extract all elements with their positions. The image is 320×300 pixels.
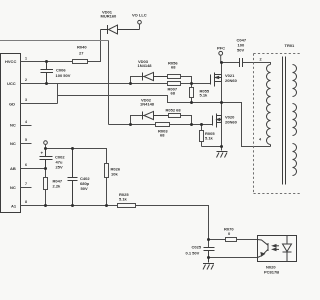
wire C047 to primary xyxy=(243,63,271,65)
wire pin6 row xyxy=(21,168,46,170)
IC pin stubs xyxy=(21,126,32,188)
svg-text:5: 5 xyxy=(25,138,27,142)
resistor R056 xyxy=(168,75,181,79)
wire VD02 row xyxy=(131,116,144,125)
wire V020 source to ground xyxy=(221,123,223,151)
svg-text:5.1k: 5.1k xyxy=(119,197,128,202)
mosfet V021 xyxy=(211,73,222,87)
svg-text:5.1k: 5.1k xyxy=(200,93,209,98)
resistor R055 xyxy=(190,84,194,103)
wire opto emitter row xyxy=(209,257,258,259)
svg-text:NC: NC xyxy=(10,141,16,146)
svg-text:PC817B: PC817B xyxy=(264,270,279,275)
wire V021 drain xyxy=(221,63,223,75)
svg-text:NC: NC xyxy=(10,123,16,128)
resistor R003 xyxy=(156,123,170,127)
wire R040 to VD01 xyxy=(88,30,101,62)
wire mid branch to HB node xyxy=(58,96,271,147)
wire down from off-page xyxy=(108,41,110,125)
svg-text:68: 68 xyxy=(160,133,165,138)
wire pin2 row xyxy=(21,83,211,85)
terminal above C002 xyxy=(44,141,48,145)
svg-text:1N4148: 1N4148 xyxy=(138,63,153,68)
svg-text:C006: C006 xyxy=(56,68,66,73)
svg-text:R040: R040 xyxy=(77,45,87,50)
wire R052 to corner xyxy=(181,116,192,125)
svg-text:1N4148: 1N4148 xyxy=(140,102,155,107)
svg-text:50V: 50V xyxy=(81,186,88,191)
wire top row bottom-left xyxy=(46,149,107,164)
svg-text:C025: C025 xyxy=(192,245,202,250)
diode VD01 xyxy=(101,25,140,34)
ground at C025 xyxy=(203,264,214,270)
terminal PFC xyxy=(219,51,223,55)
svg-text:HVCC: HVCC xyxy=(5,59,16,64)
svg-text:7: 7 xyxy=(25,182,27,186)
svg-text:A1: A1 xyxy=(11,203,17,208)
svg-text:0.1 50V: 0.1 50V xyxy=(186,251,200,256)
wire R070 to opto xyxy=(237,239,258,241)
wire R025 to C025 xyxy=(136,206,209,248)
svg-text:50V: 50V xyxy=(237,48,244,53)
wire R005 bottom xyxy=(202,146,222,148)
resistor R026 xyxy=(105,164,109,206)
capacitor C025 xyxy=(204,248,215,263)
svg-text:NC: NC xyxy=(10,185,16,190)
svg-text:68: 68 xyxy=(171,91,176,96)
capacitor C047 xyxy=(240,58,243,67)
svg-text:68: 68 xyxy=(171,65,176,70)
IC pin numbers xyxy=(25,57,27,205)
svg-text:+: + xyxy=(41,151,44,156)
IC pin labels xyxy=(5,59,17,208)
svg-text:25V: 25V xyxy=(56,165,63,170)
wire off-page left xyxy=(0,40,109,42)
svg-text:PFC: PFC xyxy=(217,46,225,51)
svg-text:R052 68: R052 68 xyxy=(166,108,182,113)
opto light arrows xyxy=(273,245,279,251)
svg-text:2: 2 xyxy=(25,78,27,82)
svg-text:GD: GD xyxy=(9,102,15,107)
transformer core xyxy=(282,57,284,185)
svg-text:4: 4 xyxy=(25,120,27,124)
wire VD03 row xyxy=(131,77,144,84)
terminal VO LLC xyxy=(139,24,141,30)
svg-text:TR01: TR01 xyxy=(285,43,296,48)
secondary winding 2 xyxy=(293,104,297,136)
diode VD02 xyxy=(143,111,169,119)
resistor R040 xyxy=(73,60,88,64)
resistor R052 xyxy=(169,114,181,118)
capacitor C006 xyxy=(41,62,54,84)
resistor R025 xyxy=(118,204,136,208)
wire V021 source to HB node xyxy=(221,82,223,116)
IC U01 box xyxy=(1,54,21,213)
svg-text:27: 27 xyxy=(79,51,84,56)
transformer TR01 dashed box xyxy=(254,54,301,194)
opto LED xyxy=(283,236,292,262)
svg-text:100 50V: 100 50V xyxy=(56,73,71,78)
svg-text:20N60: 20N60 xyxy=(225,120,238,125)
secondary winding 1 xyxy=(293,65,297,97)
resistor R070 xyxy=(226,238,237,242)
svg-text:2.2k: 2.2k xyxy=(53,184,62,189)
svg-text:MUR160: MUR160 xyxy=(101,13,118,18)
wire pin3 row xyxy=(21,103,58,105)
resistor R047 xyxy=(44,169,48,206)
svg-text:AB: AB xyxy=(10,166,16,171)
resistor R005 xyxy=(200,125,204,147)
svg-text:1: 1 xyxy=(25,57,27,61)
svg-text:6: 6 xyxy=(25,163,27,167)
wire pin2-pin3 tie xyxy=(57,84,59,104)
svg-text:10k: 10k xyxy=(111,172,118,177)
capacitor C402 xyxy=(68,149,78,206)
ground half-bridge xyxy=(217,152,228,158)
secondary winding 3 xyxy=(293,144,297,176)
svg-text:5.1k: 5.1k xyxy=(205,136,214,141)
resistor R007 xyxy=(168,82,181,86)
wire pin8 row xyxy=(21,205,118,207)
opto phototransistor xyxy=(258,240,269,258)
mosfet V020 xyxy=(213,114,222,128)
svg-text:UCC: UCC xyxy=(7,81,16,86)
capacitor C002 xyxy=(40,149,53,169)
svg-text:20N60: 20N60 xyxy=(225,78,238,83)
diode VD03 xyxy=(143,72,168,80)
optocoupler N020 box xyxy=(258,236,297,262)
wire to C047 xyxy=(222,62,240,64)
svg-text:3: 3 xyxy=(25,98,27,102)
transformer primary winding xyxy=(267,65,271,145)
wire lower gate row xyxy=(109,124,213,126)
svg-text:8: 8 xyxy=(25,200,27,204)
svg-text:2: 2 xyxy=(260,58,262,62)
svg-text:VO LLC: VO LLC xyxy=(132,13,147,18)
wire R056 to corner xyxy=(181,77,192,84)
wire pin1 row xyxy=(21,61,73,63)
wire to R070 xyxy=(209,239,226,241)
